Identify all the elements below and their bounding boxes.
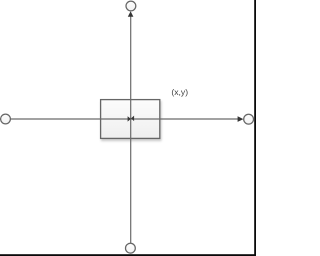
arrowhead at center pointing right (end of left edge) <box>128 116 131 121</box>
arrowhead top (points up at top circle) <box>128 11 134 17</box>
node circle top <box>126 1 136 11</box>
node circle right <box>244 114 254 124</box>
wire horizontal right: center point to right arrowhead <box>131 118 239 120</box>
node circle bottom <box>125 243 135 253</box>
canvas page edge right <box>254 0 256 256</box>
wire horizontal left: left circle to center point <box>11 118 131 120</box>
node circle left <box>1 114 11 124</box>
wire vertical bottom: center down to bottom circle <box>130 119 132 243</box>
rectangle vertex (central box) <box>101 100 160 139</box>
arrowhead at center pointing left (end of bottom edge) <box>131 116 134 122</box>
canvas page edge bottom <box>0 254 256 256</box>
wire vertical top: top arrowhead base down to center <box>130 16 132 119</box>
arrowhead right (points right at right circle) <box>238 116 244 122</box>
svg-text:(x,y): (x,y) <box>171 87 188 97</box>
